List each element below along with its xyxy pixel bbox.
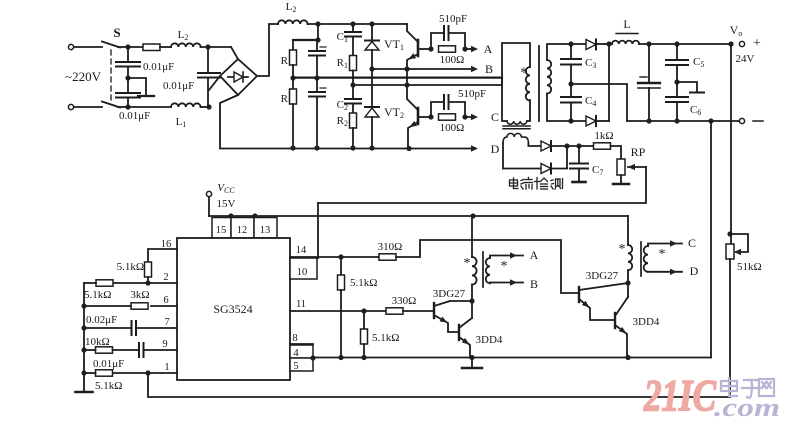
- svg-text:6: 6: [163, 295, 168, 306]
- svg-text:D: D: [690, 264, 699, 278]
- svg-text:R: R: [281, 93, 289, 105]
- svg-text:0.01μF: 0.01μF: [119, 110, 150, 122]
- star driver1 primary: [464, 256, 471, 271]
- svg-text:A: A: [530, 248, 539, 262]
- pin 16 wire: [148, 249, 177, 262]
- label R1: [337, 57, 348, 70]
- rail bottom dc: [220, 146, 471, 151]
- svg-text:5: 5: [293, 361, 298, 372]
- svg-text:51kΩ: 51kΩ: [737, 261, 762, 273]
- diode rectifier bottom: [586, 116, 609, 126]
- svg-text:15V: 15V: [217, 198, 236, 210]
- svg-text:10kΩ: 10kΩ: [85, 336, 110, 348]
- polarity mark electrolytic: [640, 76, 647, 78]
- resistor 100ohm 1: [439, 46, 468, 52]
- pin box 12: [231, 218, 254, 239]
- wire driver1 primary bottom: [469, 285, 474, 318]
- wire driver2 primary bottom: [625, 270, 630, 297]
- inductor L1 input: [171, 103, 201, 107]
- capacitor C5: [666, 44, 688, 85]
- driver1 secondary winding: [486, 258, 490, 283]
- svg-text:21IC: 21IC: [643, 371, 716, 420]
- driver1 core: [482, 252, 484, 287]
- wire bus to driver1 primary: [471, 216, 473, 257]
- svg-text:15: 15: [216, 225, 227, 236]
- inductor L2 input: [171, 43, 201, 47]
- label 0.01uF (2): [163, 80, 194, 92]
- svg-text:D: D: [491, 142, 500, 156]
- inductor L2 dc: [278, 20, 308, 24]
- capacitor 0.01uF line filter 1: [116, 47, 140, 78]
- label C driver2: [688, 236, 696, 250]
- label dianliu jiance: [510, 178, 563, 190]
- polarity mark bus upper cap: [320, 46, 326, 48]
- label 3k: [130, 289, 149, 301]
- rail B emitter: [372, 68, 471, 70]
- wire R upper to mid: [290, 65, 295, 81]
- label C4: [585, 95, 596, 108]
- capacitor 0.01uF pin9: [139, 343, 144, 357]
- label A: [484, 42, 493, 56]
- svg-text:3kΩ: 3kΩ: [130, 289, 149, 301]
- resistor 3k: [84, 303, 148, 309]
- capacitor 510pF 1: [431, 26, 465, 49]
- star driver1 secondary: [501, 259, 508, 274]
- capacitor 0.01uF across line: [198, 47, 220, 107]
- resistor 10k: [84, 347, 139, 353]
- pin 6 wire: [151, 305, 177, 307]
- pin box 13: [254, 218, 277, 239]
- diode rectifier top: [586, 40, 609, 50]
- label 3DD4 1: [476, 334, 503, 346]
- resistor 5.1k pin14: [338, 257, 345, 360]
- label SG3524: [213, 302, 252, 316]
- wire VT2 base: [418, 114, 434, 119]
- capacitor C4: [561, 84, 581, 121]
- rail cap midpoint: [293, 76, 502, 78]
- wire L to output: [639, 41, 734, 46]
- capacitor C6: [666, 82, 688, 121]
- label C3: [585, 57, 596, 70]
- transistor Q2 3DD4: [459, 318, 472, 358]
- current transformer secondary: [503, 133, 528, 143]
- capacitor C7: [570, 146, 588, 181]
- left rail: [81, 283, 86, 391]
- wire top dc rail: [308, 21, 407, 26]
- diode D1 across VT1: [365, 24, 379, 72]
- svg-text:A: A: [484, 42, 493, 56]
- wire L1 to cap node: [201, 104, 212, 109]
- label A driver1: [530, 248, 539, 262]
- wire L2 to bridge: [201, 44, 231, 49]
- pin10 feedback wire: [317, 203, 319, 258]
- svg-text:R: R: [281, 55, 289, 67]
- logo 21IC: [643, 371, 716, 420]
- ac input terminal bottom: [68, 104, 102, 109]
- driver2 secondary winding: [644, 246, 648, 272]
- wire sense join: [564, 143, 596, 168]
- label 1k: [594, 130, 613, 142]
- svg-text:B: B: [530, 277, 538, 291]
- resistor 5.1k pin1: [84, 370, 113, 376]
- label 15V: [217, 198, 236, 210]
- label C: [491, 110, 499, 124]
- transistor Q3 3DG27: [579, 283, 628, 320]
- label 310: [378, 241, 403, 253]
- svg-text:510pF: 510pF: [458, 88, 486, 100]
- resistor 5.1k pin2: [84, 280, 113, 286]
- pin 9 wire: [144, 349, 178, 351]
- capacitor bus lower: [309, 78, 325, 151]
- pin 8 wire: [290, 343, 313, 345]
- label C1: [337, 31, 348, 44]
- svg-text:100Ω: 100Ω: [440, 54, 465, 66]
- svg-text:S: S: [113, 25, 120, 40]
- svg-text:3DD4: 3DD4: [476, 334, 503, 346]
- svg-text:0.02μF: 0.02μF: [86, 314, 117, 326]
- main transformer primary loop: [502, 43, 530, 121]
- switch S blade top: [102, 42, 120, 48]
- pin 11 wire: [290, 308, 386, 313]
- wire bridge plus up: [257, 24, 278, 76]
- svg-text:5.1kΩ: 5.1kΩ: [84, 289, 111, 301]
- label pin6: [163, 295, 168, 306]
- label pin8: [292, 333, 297, 344]
- capacitor 510pF 2: [431, 95, 465, 117]
- label 3DG27 2: [586, 270, 619, 282]
- wire output plus feedback: [730, 44, 732, 244]
- svg-text:.com: .com: [714, 393, 780, 422]
- driver2 primary winding: [628, 245, 632, 270]
- label R2: [337, 115, 348, 128]
- wire to L2: [160, 46, 171, 48]
- rail emitter common: [313, 355, 711, 360]
- star driver2 primary: [619, 242, 626, 257]
- label 330: [392, 295, 417, 307]
- label L output: [616, 17, 638, 34]
- resistor 330: [386, 308, 403, 314]
- output electrolytic cap: [638, 44, 660, 121]
- capacitor 0.01uF line filter 2: [116, 78, 140, 110]
- svg-text:C: C: [491, 110, 499, 124]
- pin 14 wire: [290, 254, 379, 259]
- label 5.1k pin1: [95, 380, 122, 392]
- wire VT1 base: [418, 46, 434, 51]
- arrow B: [471, 66, 478, 72]
- label pin9: [162, 339, 167, 350]
- label C6: [690, 104, 701, 117]
- rail output return: [627, 118, 740, 123]
- svg-text:5.1kΩ: 5.1kΩ: [372, 332, 399, 344]
- node mid filter: [125, 75, 130, 80]
- driver2 secondary wire C: [648, 240, 682, 246]
- svg-text:*: *: [464, 256, 471, 271]
- svg-text:3DG27: 3DG27: [433, 288, 466, 300]
- label pin11: [296, 299, 306, 310]
- label 5.1k pin11: [372, 332, 399, 344]
- label Vcc: [217, 182, 235, 195]
- bridge inner diode: [228, 72, 248, 82]
- svg-text:14: 14: [296, 245, 307, 256]
- label VT1: [384, 37, 404, 52]
- bridge rectifier diamond: [220, 59, 257, 95]
- current transformer primary bumps: [507, 121, 527, 124]
- ground driver1: [462, 358, 482, 369]
- wire center tap return: [571, 84, 627, 121]
- label pin7: [164, 317, 169, 328]
- main transformer secondary wire top: [547, 41, 586, 60]
- label pin2: [163, 272, 168, 283]
- svg-text:1: 1: [164, 362, 169, 373]
- wire bus to driver2 primary: [627, 216, 629, 245]
- IC SG3524 body: [177, 238, 290, 380]
- wire VT1e to VT2c: [404, 69, 409, 88]
- resistor 1k: [594, 143, 611, 149]
- main transformer secondary wire bottom: [547, 94, 586, 124]
- polarity mark bus lower cap: [320, 87, 326, 89]
- wire ac1 to bridge: [231, 47, 238, 59]
- wire 5.1k to pin2 line: [145, 277, 150, 286]
- wire to arrow A: [465, 48, 471, 50]
- resistor R lower: [290, 78, 297, 104]
- capacitor C2: [345, 85, 361, 113]
- label 10k: [85, 336, 110, 348]
- svg-text:2: 2: [163, 272, 168, 283]
- svg-text:330Ω: 330Ω: [392, 295, 417, 307]
- label B: [485, 62, 493, 76]
- wire ct bottom: [503, 168, 541, 170]
- resistor R1: [350, 56, 357, 71]
- pin 2 wire: [112, 282, 177, 284]
- label 100ohm 1: [440, 54, 465, 66]
- label pin14: [296, 245, 307, 256]
- switch S label: [113, 25, 120, 40]
- svg-text:24V: 24V: [736, 53, 755, 65]
- svg-text:8: 8: [292, 333, 297, 344]
- wire jog to R divider: [293, 24, 321, 50]
- label 100ohm 2: [440, 122, 465, 134]
- label RP: [631, 145, 646, 159]
- star driver2 secondary: [659, 247, 666, 262]
- resistor 100ohm 2: [439, 114, 468, 120]
- svg-text:*: *: [501, 259, 508, 274]
- resistor 51k: [726, 244, 734, 259]
- label R upper: [281, 55, 289, 67]
- svg-text:3DD4: 3DD4: [633, 316, 660, 328]
- label ~220V: [65, 69, 102, 84]
- node VT1 emitter: [404, 66, 409, 71]
- pin box 15: [212, 218, 231, 239]
- label L2 dc: [286, 1, 297, 14]
- svg-text:7: 7: [164, 317, 169, 328]
- wire bottom after switch: [118, 106, 171, 108]
- transistor VT2: [407, 85, 418, 149]
- svg-text:~220V: ~220V: [65, 69, 102, 84]
- RP ground: [613, 175, 629, 184]
- label 5.1k pin2: [84, 289, 111, 301]
- resistor 5.1k pin16: [145, 262, 152, 277]
- chassis ground stub: [128, 78, 154, 96]
- RP wiper: [628, 164, 646, 170]
- 51k tap loop: [730, 234, 748, 255]
- resistor R upper: [290, 50, 297, 65]
- arrow A: [471, 46, 478, 52]
- switch S link dashed: [110, 50, 112, 102]
- wire R lower to bottom rail: [290, 104, 295, 151]
- wire bridge minus down: [220, 95, 238, 148]
- arrow C: [471, 114, 478, 120]
- label 3DD4 2: [633, 316, 660, 328]
- Vcc terminal: [206, 191, 211, 216]
- svg-text:5.1kΩ: 5.1kΩ: [350, 277, 377, 289]
- driver2 core: [640, 242, 642, 276]
- label 5.1k pin16: [117, 261, 144, 273]
- ground C7: [573, 181, 586, 184]
- node 51k top: [727, 231, 732, 236]
- wire ct sec left: [502, 143, 504, 169]
- wire 330 to driver1 base: [403, 310, 433, 312]
- label D: [491, 142, 500, 156]
- svg-text:*: *: [659, 247, 666, 262]
- wire ac2 to bridge: [209, 76, 220, 90]
- transistor Q4 3DD4: [615, 297, 628, 358]
- diode D2 across VT2: [365, 69, 379, 151]
- wire top after switch: [118, 44, 143, 49]
- node pins 458: [310, 355, 315, 360]
- label R lower: [281, 93, 289, 105]
- pin 7 wire: [136, 327, 177, 329]
- rail switch midpoint: [350, 82, 502, 87]
- driver2 secondary wire D: [648, 269, 682, 275]
- svg-text:*: *: [619, 242, 626, 257]
- main transformer primary winding: [526, 67, 530, 101]
- label VT2: [384, 105, 404, 120]
- label C2: [337, 99, 348, 112]
- pin 10 box: [290, 258, 317, 279]
- svg-text:L: L: [623, 17, 630, 31]
- svg-text:16: 16: [161, 239, 172, 250]
- label pin16: [161, 239, 172, 250]
- arrow D: [471, 145, 478, 151]
- svg-text:5.1kΩ: 5.1kΩ: [95, 380, 122, 392]
- pin 5 box: [290, 358, 313, 372]
- svg-text:100Ω: 100Ω: [440, 122, 465, 134]
- wire output minus to emitter rail: [710, 121, 712, 358]
- wire 310 to driver2 base: [396, 240, 579, 293]
- label 51k: [737, 261, 762, 273]
- switch S blade bottom: [102, 102, 120, 108]
- wire diode join: [606, 41, 611, 121]
- logo dianziwang: [721, 378, 774, 398]
- transistor VT1: [407, 24, 418, 69]
- wire to arrow C: [465, 116, 471, 118]
- label 0.01uF (1): [143, 61, 174, 73]
- output terminal minus: [739, 118, 763, 123]
- fuse FU: [143, 44, 160, 51]
- ground left rail: [76, 391, 93, 394]
- driver1 secondary wire A: [490, 252, 523, 258]
- label 3DG27 1: [433, 288, 466, 300]
- diode sense top: [541, 141, 567, 151]
- svg-text:11: 11: [296, 299, 306, 310]
- current transformer core: [503, 126, 530, 129]
- C6 pointer stub: [677, 82, 704, 93]
- capacitor bus upper: [309, 40, 325, 81]
- logo com: [714, 393, 780, 422]
- svg-text:C: C: [688, 236, 696, 250]
- svg-text:0.01μF: 0.01μF: [143, 61, 174, 73]
- label 510pF 2: [458, 88, 486, 100]
- wire R2 to bottom rail: [350, 128, 355, 151]
- bottom long rail: [148, 373, 729, 397]
- svg-text:*: *: [520, 65, 528, 81]
- label 0.02uF: [86, 314, 117, 326]
- driver1 secondary wire B: [490, 279, 523, 285]
- transistor Q1 3DG27: [434, 301, 472, 332]
- pin 4 box: [290, 345, 313, 359]
- svg-text:5.1kΩ: 5.1kΩ: [117, 261, 144, 273]
- star primary: [520, 65, 528, 81]
- vcc bus: [209, 213, 628, 218]
- label 0.01uF (3): [119, 110, 150, 122]
- svg-text:3DG27: 3DG27: [586, 270, 619, 282]
- label pin1: [164, 362, 169, 373]
- svg-text:B: B: [485, 62, 493, 76]
- svg-text:0.01μF: 0.01μF: [93, 358, 124, 370]
- svg-text:1kΩ: 1kΩ: [594, 130, 613, 142]
- label 0.01uF pin9: [93, 358, 124, 370]
- svg-text:510pF: 510pF: [439, 13, 467, 25]
- label B driver1: [530, 277, 538, 291]
- wire 1k to RP: [611, 146, 622, 159]
- main transformer secondary winding: [547, 60, 551, 94]
- svg-text:0.01μF: 0.01μF: [163, 80, 194, 92]
- svg-text:RP: RP: [631, 145, 646, 159]
- label 5.1k pin14: [350, 277, 377, 289]
- wire 51k down: [729, 259, 731, 397]
- resistor 5.1k pin11: [361, 311, 368, 360]
- main transformer core: [538, 46, 540, 121]
- pin 1 wire: [113, 370, 178, 375]
- output terminal plus: [730, 23, 761, 65]
- driver1 primary winding: [472, 257, 477, 285]
- inductor L output: [609, 41, 639, 44]
- RP wiper wire: [318, 167, 646, 203]
- label 510pF 1: [439, 13, 467, 25]
- svg-text:310Ω: 310Ω: [378, 241, 403, 253]
- capacitor C1: [345, 24, 361, 56]
- label D driver2: [690, 264, 699, 278]
- wire ct sec right: [528, 143, 541, 146]
- svg-text:SG3524: SG3524: [213, 302, 252, 316]
- resistor 310: [379, 254, 396, 260]
- svg-text:12: 12: [237, 225, 248, 236]
- diode sense bottom: [541, 164, 567, 174]
- label L2 input: [178, 29, 189, 42]
- svg-text:+: +: [753, 36, 761, 51]
- svg-text:9: 9: [162, 339, 167, 350]
- wire R1 to midpoint: [352, 71, 354, 86]
- svg-text:13: 13: [260, 225, 271, 236]
- resistor R2: [350, 113, 357, 128]
- capacitor C3: [561, 44, 581, 87]
- label C5: [693, 56, 704, 69]
- capacitor 0.02uF: [84, 321, 136, 335]
- svg-text:10: 10: [297, 267, 308, 278]
- label C7: [592, 164, 603, 177]
- label L1 input: [176, 116, 187, 129]
- potentiometer RP body: [617, 159, 625, 175]
